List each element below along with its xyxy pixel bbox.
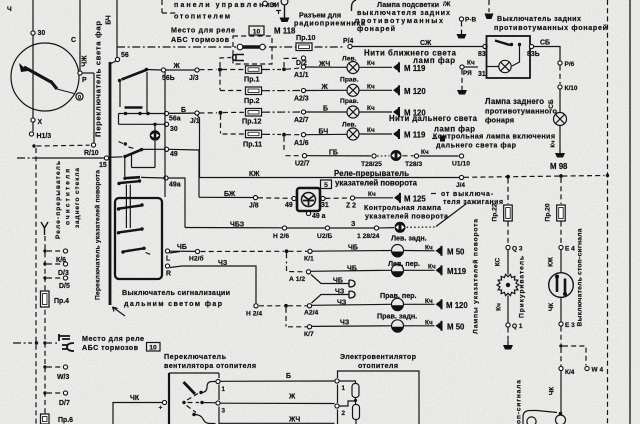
ground M98 <box>555 149 565 158</box>
dashed drop from P/8 to ground <box>461 22 463 32</box>
dashed wire to A1/6 <box>286 134 300 136</box>
junction dot lighter feed <box>506 175 510 179</box>
dashed link to K/1 <box>289 250 308 252</box>
right-front turn lamp <box>392 298 404 311</box>
motor resistor tail <box>355 420 357 424</box>
wire ЧЗ from R <box>170 266 256 303</box>
junction dot A1/1 feed <box>282 67 286 71</box>
left-front turn lamp <box>392 264 404 277</box>
hazard relay pin 49 ring <box>292 196 296 200</box>
node J/3 <box>195 68 199 72</box>
dashed wire J/1 to junction <box>200 112 218 114</box>
svg-text:фонарей: фонарей <box>357 25 395 33</box>
svg-text:Q 1: Q 1 <box>512 323 523 330</box>
right high-beam lamp filament <box>347 106 359 118</box>
svg-text:К/10: К/10 <box>565 85 578 92</box>
svg-text:Прикуриватель: Прикуриватель <box>519 256 526 318</box>
label ignition feed line 1 <box>431 193 436 195</box>
svg-text:83Ь: 83Ь <box>527 51 540 58</box>
motor resistor junction <box>355 398 357 405</box>
svg-text:фонаря: фонаря <box>485 116 514 125</box>
stub wire ЧБ with fork <box>311 275 345 284</box>
node H2/4 <box>254 304 258 308</box>
node blower feed <box>162 400 166 404</box>
svg-text:ЧЗ: ЧЗ <box>340 320 350 327</box>
node 15 <box>104 156 108 160</box>
svg-text:М 120: М 120 <box>404 87 426 96</box>
dotted wire to tell-tale lamp <box>377 155 390 157</box>
svg-text:J/8: J/8 <box>249 203 259 210</box>
svg-text:Н2/б: Н2/б <box>189 255 204 263</box>
fog switch pin 31 wire <box>487 66 499 68</box>
blower rotor pivot dot <box>182 401 185 404</box>
wire 15 into switch <box>109 156 123 159</box>
svg-text:Контрольная лампа: Контрольная лампа <box>364 204 442 212</box>
svg-text:10: 10 <box>253 29 261 36</box>
dashed wire J/3 to junction <box>200 69 217 71</box>
svg-text:Б: Б <box>323 106 328 113</box>
node P/4 <box>348 44 352 48</box>
svg-text:U2/7: U2/7 <box>295 161 310 168</box>
junction dot ЧЗ bus <box>284 304 288 308</box>
right-rear turn lamp <box>392 320 404 333</box>
svg-text:Ж: Ж <box>173 63 181 70</box>
fork connector ЧЗ <box>345 291 355 298</box>
svg-text:К/4: К/4 <box>565 369 575 376</box>
svg-text:DИ: DИ <box>270 2 280 9</box>
dash-dot wire Пр.11 out <box>262 133 281 135</box>
contact hook <box>119 142 124 144</box>
wire Ж switch to motor <box>221 402 335 404</box>
fuse Пр.11 <box>246 130 262 138</box>
svg-text:вентилятора отопителя: вентилятора отопителя <box>164 362 256 370</box>
callout arrow to flash switch <box>113 307 126 316</box>
svg-text:Лампа заднего: Лампа заднего <box>485 97 544 106</box>
svg-text:ЧБ: ЧБ <box>347 266 357 273</box>
wire ЧЖ from P to R/10 <box>82 72 94 74</box>
wire КЖ from J/1 down <box>197 115 200 178</box>
svg-text:противотуманного: противотуманного <box>485 107 557 116</box>
svg-text:49 а: 49 а <box>312 213 326 220</box>
node J/4 <box>459 175 463 179</box>
node P/8 <box>459 17 463 21</box>
svg-text:Z 2: Z 2 <box>346 203 356 210</box>
svg-text:D/3: D/3 <box>58 270 69 277</box>
dashed branch to W4 <box>563 346 586 366</box>
dash-dot wire Пр.2 to A2/3 <box>262 90 300 92</box>
svg-text:Н 2/6: Н 2/6 <box>273 233 289 240</box>
svg-text:Р: Р <box>82 77 87 84</box>
svg-text:ЧБ: ЧБ <box>177 244 187 251</box>
svg-text:ГБ: ГБ <box>329 150 338 157</box>
svg-text:Кч: Кч <box>551 141 557 148</box>
contact riser <box>119 82 121 107</box>
junction dot below H1/3 <box>32 144 35 147</box>
node K/1 <box>308 249 312 253</box>
svg-text:оп-сигнала: оп-сигнала <box>516 380 523 424</box>
node Q3 <box>506 245 510 249</box>
svg-text:А 1/2: А 1/2 <box>289 276 305 283</box>
svg-text:1: 1 <box>342 385 346 392</box>
ground M125 <box>394 193 400 203</box>
svg-text:выключателя задних: выключателя задних <box>357 9 450 17</box>
wire СБ to rear fog lamp <box>534 47 560 61</box>
node P/6 <box>558 61 562 65</box>
svg-text:56а: 56а <box>169 116 181 123</box>
node 30 <box>31 31 35 35</box>
svg-text:Переключатель указателей повор: Переключатель указателей поворота <box>94 170 102 300</box>
svg-text:30: 30 <box>170 126 178 133</box>
svg-text:Выключатель стоп-сигнала: Выключатель стоп-сигнала <box>577 228 584 326</box>
svg-text:А2/7: А2/7 <box>294 117 309 124</box>
svg-text:Место для реле: Место для реле <box>82 335 144 343</box>
dashed bus wire A downward <box>35 148 37 424</box>
sub contact bar 3 <box>120 229 142 232</box>
node 30a <box>164 122 168 126</box>
svg-text:Пр.1: Пр.1 <box>244 76 260 84</box>
wire lamp1 to ground <box>360 66 393 68</box>
svg-text:ЧК: ЧК <box>130 395 140 402</box>
node K/4 <box>559 366 563 370</box>
wire ЧК to horn switch <box>560 371 562 412</box>
svg-text:Т28/3: Т28/3 <box>405 161 422 168</box>
wire ЧБЗ to H2/8 <box>185 227 282 229</box>
fuse Пр.4 <box>41 291 50 307</box>
dashed wire junction to fuse Пр.1 <box>222 69 244 71</box>
contact dot hook <box>124 142 127 145</box>
switch pilot lamp (filled) <box>154 124 156 130</box>
svg-text:АБС тормозов: АБС тормозов <box>82 344 139 352</box>
dashed link to D/2 <box>284 58 300 67</box>
node 128/24 <box>374 226 378 230</box>
motor link mid <box>340 401 356 406</box>
fog switch illumination lamp <box>499 60 511 72</box>
svg-text:ЧЖ: ЧЖ <box>82 55 89 67</box>
svg-text:К/7: К/7 <box>304 331 314 338</box>
node U1/10 <box>459 154 463 158</box>
connector stub top middle <box>352 0 357 11</box>
contact bar row above sub-box <box>120 181 138 183</box>
svg-text:очистителя: очистителя <box>65 169 72 225</box>
stub wire ЧЗ with fork <box>312 295 346 304</box>
svg-text:М 98: М 98 <box>550 162 568 171</box>
node H2/8 <box>282 226 286 230</box>
sub contact bar 4 <box>124 249 143 252</box>
svg-text:0: 0 <box>78 95 81 101</box>
svg-text:РЯ: РЯ <box>463 70 472 77</box>
node A2/7 <box>301 110 305 114</box>
node A1/2 <box>306 270 310 274</box>
contact dot 49a <box>123 177 126 180</box>
node K/10 <box>558 85 562 89</box>
svg-text:1 28/24: 1 28/24 <box>357 233 380 240</box>
wire КС to lighter <box>507 250 509 275</box>
junction dot on bus A <box>35 341 38 344</box>
wire K/7 to right-rear lamp <box>312 325 391 328</box>
contact column link <box>124 158 126 177</box>
node W4 <box>585 366 589 370</box>
contact bar 49a <box>125 177 140 178</box>
fuse Пр.1 <box>246 66 262 74</box>
hazard relay pin 31 ring <box>321 196 325 200</box>
svg-text:М 119: М 119 <box>404 64 426 73</box>
dashed stub to ABS relay <box>47 342 57 344</box>
wire ЖЧ to left low-beam lamp <box>306 66 347 68</box>
svg-text:Н1/3: Н1/3 <box>37 133 52 140</box>
high-beam tell-tale lamp <box>391 150 402 161</box>
fuse Пр.22 <box>504 205 513 221</box>
svg-text:Лев. задн.: Лев. задн. <box>391 235 427 243</box>
wire lighter to Q1 <box>507 296 509 323</box>
node P/9 <box>460 65 464 69</box>
node H2/6 <box>195 249 199 253</box>
dashed feed drop to Пр.11 row <box>220 115 222 134</box>
ABS relay placeholder symbol (lower) <box>59 334 70 341</box>
fog switch lamp wire <box>512 46 520 66</box>
svg-text:W 4: W 4 <box>592 367 604 374</box>
svg-text:указателей поворота: указателей поворота <box>335 179 418 188</box>
svg-text:М 50: М 50 <box>447 323 465 332</box>
junction dot fuse feed <box>218 68 222 72</box>
svg-text:Б: Б <box>286 373 291 380</box>
wire stop switch to E3 <box>560 298 562 322</box>
motor resistor link top <box>340 381 356 383</box>
wire Ж from 56b to J/3 <box>166 69 195 71</box>
dashed drop to A1/2 <box>286 253 288 263</box>
svg-text:М 119: М 119 <box>404 131 426 140</box>
node 83 <box>483 44 487 48</box>
svg-text:Ж: Ж <box>321 84 329 91</box>
sub contact bar 2 <box>120 206 142 209</box>
hazard switch steering-wheel symbol <box>302 193 316 207</box>
contact dot a2 <box>145 68 148 71</box>
rear fog lamp <box>554 113 567 126</box>
node 56a <box>164 111 168 115</box>
svg-text:Выключатель сигнализации: Выключатель сигнализации <box>122 289 230 297</box>
svg-text:С: С <box>71 37 76 44</box>
svg-text:Пр.12: Пр.12 <box>242 118 261 126</box>
svg-text:2: 2 <box>342 410 346 417</box>
wire БЧ from top to node 56 <box>116 0 118 57</box>
svg-text:ЧЗ: ЧЗ <box>335 289 345 296</box>
boxed label 10 (lower) <box>147 343 161 352</box>
svg-text:U2/Б: U2/Б <box>317 233 332 240</box>
svg-text:панели управления: панели управления <box>174 1 276 9</box>
svg-text:СЖ: СЖ <box>420 40 432 47</box>
svg-text:З: З <box>351 221 356 228</box>
svg-text:49: 49 <box>170 151 178 158</box>
dashed stub to W/3 <box>47 366 62 368</box>
blower terminal 1 <box>216 379 220 383</box>
svg-text:М 118: М 118 <box>274 27 296 36</box>
svg-text:ЧЗ: ЧЗ <box>218 260 228 267</box>
svg-text:X: X <box>38 119 43 126</box>
svg-text:+: + <box>159 405 163 412</box>
connector fork of rear wiper relay <box>41 222 48 235</box>
boxed label 10 (upper) <box>249 26 264 35</box>
sub-box parallel wires <box>125 185 127 228</box>
motor terminal 1 <box>335 379 339 383</box>
node 56 <box>115 57 119 61</box>
fork connector ЧБ <box>345 280 355 287</box>
svg-text:КС: КС <box>495 257 502 266</box>
svg-text:Пр.20: Пр.20 <box>545 203 552 222</box>
svg-text:Разъем для: Разъем для <box>299 12 341 20</box>
svg-text:J/3: J/3 <box>189 75 199 82</box>
svg-text:указателей поворота: указателей поворота <box>365 213 449 221</box>
node A2/4 <box>307 304 311 308</box>
wire C from top to terminal P <box>79 0 81 71</box>
svg-text:дальним светом фар: дальним светом фар <box>124 300 223 308</box>
ground M50a <box>436 246 442 256</box>
svg-text:Реле-прерыватель: Реле-прерыватель <box>334 169 409 178</box>
dashed wire P/6 to K/10 <box>559 66 561 85</box>
svg-text:Пр.22: Пр.22 <box>492 203 499 222</box>
svg-text:U1/10: U1/10 <box>452 161 470 168</box>
ground M50d <box>436 321 442 331</box>
wire КЖ to J/4 <box>200 177 460 179</box>
dashed bus wire B downward <box>44 236 46 424</box>
svg-text:R/10: R/10 <box>84 150 99 157</box>
wire Б from 56a to J/1 <box>169 112 195 114</box>
fuse Пр.2 <box>246 87 262 95</box>
svg-text:ЧК: ЧК <box>549 387 556 396</box>
wire to node 49 <box>143 148 164 150</box>
node U2/6 <box>325 226 329 230</box>
svg-text:АБС тормозов: АБС тормозов <box>171 36 230 44</box>
wire Z2 to ground M125 <box>355 197 393 199</box>
svg-text:D/7: D/7 <box>59 400 70 407</box>
svg-text:БЧ: БЧ <box>319 129 329 136</box>
wire ГБ from U2/7 <box>307 155 371 157</box>
motor terminal 2 <box>335 404 339 408</box>
dashed link from Ж junction to fork <box>220 58 231 68</box>
sub contact dots 4 <box>121 250 124 253</box>
switch contact bar a <box>122 70 147 80</box>
wire lamp2 to ground <box>360 89 393 91</box>
svg-text:J/1: J/1 <box>190 118 200 125</box>
node E3 <box>559 322 563 326</box>
svg-text:отопителем: отопителем <box>174 13 230 21</box>
wire to node 49a <box>141 176 164 179</box>
junction dot K/6 <box>43 249 46 252</box>
node W/3 <box>63 365 67 369</box>
blower motor box <box>337 410 339 424</box>
svg-text:Р/6: Р/6 <box>565 61 575 68</box>
node R <box>165 264 169 268</box>
svg-text:ЖЧ: ЖЧ <box>288 417 300 424</box>
dash-dot wire Пр.12 to A2/7 <box>262 111 300 113</box>
node A2/3 <box>301 88 305 92</box>
wire to tell-tale <box>379 227 394 229</box>
blower contact hooks <box>201 382 216 393</box>
junction dot E3 branch <box>559 344 562 347</box>
left-rear turn lamp <box>392 245 404 258</box>
left low-beam lamp filament <box>347 62 359 74</box>
contact bar 49 (moving) <box>126 150 142 157</box>
svg-text:Е 4: Е 4 <box>565 246 575 253</box>
wire ЧБЗ from 49a <box>168 178 185 228</box>
svg-text:Переключатель: Переключатель <box>164 353 227 361</box>
svg-text:R: R <box>166 271 171 278</box>
dashed wire to A1/1 <box>286 68 300 69</box>
wire from 49 terminal <box>169 149 199 197</box>
node R/10 <box>91 143 95 147</box>
svg-text:противотуманных фонарей: противотуманных фонарей <box>494 24 607 32</box>
sub motion dashes <box>146 253 153 256</box>
svg-text:А1/6: А1/6 <box>294 140 309 147</box>
svg-text:Т28/25: Т28/25 <box>361 161 382 168</box>
node U2/7 <box>302 154 306 158</box>
svg-text:Выключатель задних: Выключатель задних <box>497 15 581 23</box>
svg-text:Кч: Кч <box>367 127 375 134</box>
wire row 56a <box>119 113 165 115</box>
wire L to H2/6 node <box>170 250 195 252</box>
svg-text:БЖ: БЖ <box>224 191 236 198</box>
svg-text:Прав.: Прав. <box>340 77 359 84</box>
svg-text:83: 83 <box>478 51 486 58</box>
svg-text:Электровентилятор: Электровентилятор <box>340 353 417 361</box>
junction dot ЧБ bus <box>285 249 289 253</box>
right dashed border line <box>607 0 609 424</box>
junction dot Пр.12 feed <box>219 111 223 115</box>
dashed wire to K/4 <box>560 348 562 366</box>
ignition switch position mark circle O <box>76 93 83 100</box>
svg-text:ЖЧ: ЖЧ <box>318 61 330 68</box>
svg-text:ЧБ: ЧБ <box>333 278 343 285</box>
right solid border line <box>629 0 631 424</box>
dashed wire to fuse Пр.11 <box>223 133 245 135</box>
wire СЖ main feed <box>353 46 484 48</box>
svg-text:М119: М119 <box>447 267 467 276</box>
dashed H2/4 to A2/4 <box>259 305 284 307</box>
dash-dot wire Пр.1 to A1/1 <box>262 69 281 71</box>
wire 56 to switch bar <box>111 61 116 64</box>
wire ЧБ from L to H2/6 <box>170 252 181 254</box>
wire from terminal 30 upward <box>32 0 34 31</box>
blower switch box top edge <box>169 372 219 374</box>
svg-text:К/1: К/1 <box>304 256 314 263</box>
sub contact dots 3 <box>117 231 120 234</box>
svg-text:10: 10 <box>149 345 157 352</box>
dashed drop to fuse Пр.22 <box>507 179 509 205</box>
wire 15 to light switch <box>38 157 106 159</box>
svg-text:Р·В: Р·В <box>465 17 477 24</box>
wire БЖ to J/8 <box>199 196 253 198</box>
wire З to 128/24 <box>330 227 374 229</box>
node L <box>165 249 169 253</box>
left high-beam lamp filament <box>347 128 359 140</box>
svg-text:Кч: Кч <box>367 105 375 112</box>
headlight switch main bar <box>109 62 112 305</box>
dashed wire to R/10 <box>37 144 90 147</box>
svg-text:Контрольная лампа включения: Контрольная лампа включения <box>433 133 555 141</box>
dash-dot stub to left edge <box>13 342 32 344</box>
blower contact dots <box>199 391 202 394</box>
dashed drop to K/7 <box>285 308 287 327</box>
svg-text:30: 30 <box>38 30 46 37</box>
svg-text:Нити дальнего света: Нити дальнего света <box>389 114 478 123</box>
svg-text:Кч: Кч <box>367 60 375 67</box>
ground below P/9 <box>457 86 467 95</box>
junction dot stop feed <box>559 174 563 178</box>
wire lamp3 to ground <box>360 111 393 113</box>
node T28/25 <box>372 154 376 158</box>
dashed feed drop to Пр.2 row <box>219 72 221 91</box>
blower switch box left edge <box>168 373 170 424</box>
dashed wire fuse to Q3 <box>507 222 509 246</box>
node A1/6 <box>301 133 305 137</box>
